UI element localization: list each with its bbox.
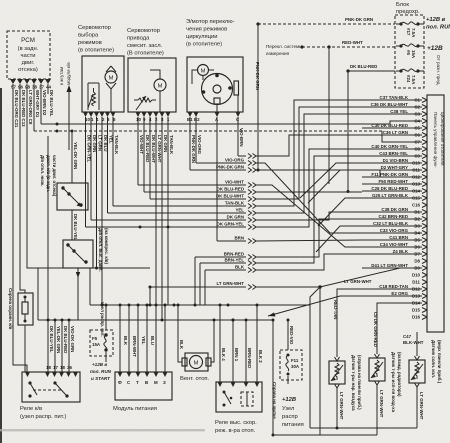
wire D13 E2 ORG diagonal: [268, 296, 362, 317]
wire DK BLU-RED feed: [346, 64, 395, 191]
sensor T1 label: [351, 355, 362, 411]
fuse F5 box: [90, 302, 113, 362]
long feed bus solid: [41, 84, 422, 126]
row BRN-YEL wire: [200, 156, 362, 305]
servo M1 wires down: [86, 117, 120, 305]
wire YEL-DK GRN to S1: [72, 131, 78, 183]
fuse F17: [399, 22, 419, 38]
servo motor M1 title: [78, 25, 114, 54]
high speed relay K2 box: [216, 382, 262, 412]
fuse block box: [395, 15, 424, 88]
evaporator temp sensor T2: [369, 354, 385, 435]
panel row labels: [362, 95, 422, 296]
scan streak artifact: [0, 429, 205, 431]
AC relay K1 label: [20, 406, 66, 420]
recirculation motor M3 title: [186, 19, 235, 48]
distribution block label: [272, 382, 304, 428]
long feed bus dashed: [34, 84, 422, 142]
solar sensor T3: [409, 356, 425, 428]
wire RED-VIO: [287, 319, 295, 351]
+12V RUN label: [426, 17, 450, 31]
PCM module U1: [7, 31, 51, 84]
high pressure switch S2: [63, 240, 93, 320]
heater fan motor: [177, 304, 215, 372]
PCM wires down left: [13, 84, 150, 372]
fuse output stubs: [396, 24, 424, 71]
low pressure switch S1 label: [40, 155, 57, 197]
power module wires: [119, 304, 167, 373]
wire C47 BLK-WHT to sensor T3: [403, 332, 424, 356]
low pressure switch S1: [57, 183, 88, 240]
power module box: [115, 372, 172, 400]
high pressure switch S2 label: [98, 228, 109, 272]
fuse F24: [399, 69, 419, 85]
panel pins C1-C16: [412, 98, 427, 208]
row LT GRN wire: [238, 135, 362, 159]
fuse F11 box: [280, 350, 302, 384]
row VIO-WHT wire: [138, 180, 362, 248]
row BRN-RED wire: [195, 219, 362, 305]
sensor T3 label: [431, 340, 442, 384]
row VIO-ORG wire: [196, 158, 362, 234]
high speed relay K2 wires: [219, 304, 264, 383]
row LT GRN-WHT wire: [149, 268, 423, 435]
servo M2 wires down: [138, 117, 174, 320]
recirculation motor M3 box: [187, 57, 243, 112]
bus y268 / y305 / y320: [38, 268, 310, 322]
wire PNK-DK GRN feed: [255, 17, 395, 170]
recirc M3 wire labels: [191, 128, 244, 163]
sensor T2 label: [391, 352, 402, 413]
control panel box: [427, 95, 445, 332]
fuse block title: [396, 2, 420, 15]
servo motor M2 title: [127, 28, 164, 57]
row PNK-DK GRN wire: [190, 165, 380, 178]
servo M1 pins: [83, 112, 116, 122]
servo M2 pins: [136, 112, 171, 122]
measurement switch label: [266, 44, 303, 56]
+12V RUN START label: [90, 362, 112, 381]
wire D14 to sensor T2: [373, 303, 422, 354]
row DK BLU-WHT wire: [150, 107, 362, 202]
servo motor M1 box: [82, 56, 124, 112]
row YEL wire: [108, 114, 363, 216]
harness arrow to A/C module: [59, 62, 72, 150]
PCM wire labels: [11, 85, 54, 128]
wire x273 down: [272, 320, 274, 435]
outside air temp sensor T1: [329, 357, 345, 428]
row DK GRN wire: [91, 212, 362, 223]
AC relay K1 box: [22, 372, 80, 402]
unlabeled riser rows C10 C11 C15 D3: [300, 163, 362, 252]
scan edge artifact: [0, 88, 2, 443]
row BLK wire: [205, 254, 362, 305]
servo motor M2 box: [128, 58, 176, 112]
panel pins D1-D16: [412, 210, 427, 320]
row TAN-BLK wire: [113, 100, 362, 209]
relay1 wire labels: [46, 84, 75, 372]
recirc M3 pins: [187, 112, 241, 241]
wire RED-WHT feed: [300, 40, 395, 184]
siren diode box: [18, 293, 33, 372]
high speed relay K2 label: [215, 420, 257, 434]
bottom ground bus wires: [272, 427, 418, 437]
scan noise overlay: [0, 0, 1, 1]
fuse F6: [399, 44, 419, 59]
row DK GRN-YEL wire: [86, 149, 363, 230]
row BRN wire: [217, 236, 362, 244]
row DK BLU-RED wire: [144, 187, 362, 195]
wire D12 RED-TAN to sensor T1: [333, 289, 362, 357]
